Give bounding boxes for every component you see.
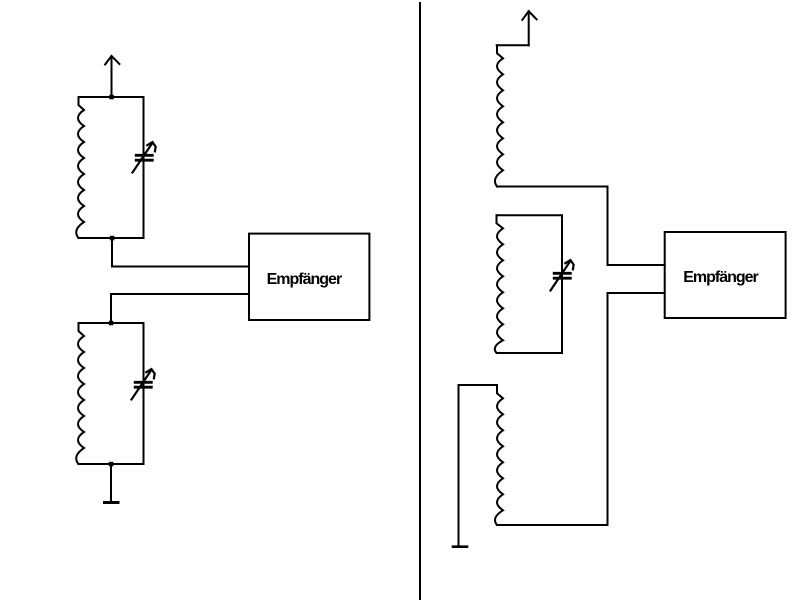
svg-text:Empfänger: Empfänger <box>683 269 758 286</box>
svg-text:Empfänger: Empfänger <box>267 271 342 288</box>
